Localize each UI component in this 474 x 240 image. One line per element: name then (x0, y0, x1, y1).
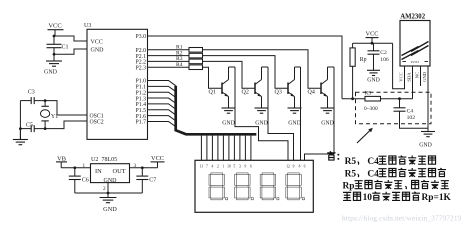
resistor R1 (176, 45, 203, 53)
pin OSC2 label (U3 left) (90, 119, 104, 125)
wire R3 to Q2 base (203, 61, 256, 88)
wire P1.3 to bus (148, 98, 176, 103)
wire P2.1 to resistor R2 (148, 55, 190, 57)
capacitor C5 (26, 123, 34, 133)
wire VCC rail to sensor pin 1 (393, 43, 405, 88)
display digit 1 (7-segment) (209, 173, 228, 200)
node C junction (crystal top) (44, 99, 47, 102)
wire SDA net (342, 98, 413, 100)
svg-text:Q2: Q2 (242, 90, 249, 96)
svg-text:R5: R5 (345, 157, 357, 167)
svg-text:106: 106 (380, 57, 389, 63)
svg-text:5: 5 (234, 165, 236, 169)
svg-text:AM2302: AM2302 (400, 14, 426, 21)
node B junction (C1/GND) (53, 53, 56, 56)
ground (U2) (100, 198, 118, 213)
resistor R3 (176, 56, 203, 63)
wire P3.0 to sensor SDA (148, 36, 343, 99)
wire bus to display pin 6 (228, 136, 230, 161)
capacitor C6 (69, 168, 89, 184)
svg-text:6: 6 (250, 165, 252, 169)
svg-text:1: 1 (83, 163, 86, 169)
power flag VCC (U2 output) (151, 155, 165, 168)
svg-text:R5: R5 (365, 91, 372, 97)
pin 3 label (U2) (134, 163, 137, 169)
wire bus to display pin 9 (244, 136, 246, 161)
pin 1 label (U2) (83, 163, 86, 169)
mcu U3 box (84, 23, 148, 139)
note marker 注： (327, 151, 339, 160)
svg-text:Y1: Y1 (51, 114, 58, 120)
display digit pin numbers (286, 165, 305, 169)
dashed box (R5/C4 optional) (356, 92, 432, 124)
wire C7 to ground rail (141, 180, 143, 194)
display digit 3 (7-segment) (260, 173, 279, 200)
pin VCC (sensor) label (399, 72, 404, 81)
wire bus to display pin 10 (250, 136, 252, 161)
wire U2 OUT to VCC (130, 167, 158, 169)
node J junction (Rp/SDA) (351, 97, 354, 100)
pin P1.0 label (136, 79, 147, 85)
svg-text:GND: GND (422, 71, 427, 82)
display DS1 box (195, 160, 313, 212)
sensor AM2302 bottom marks (403, 60, 429, 64)
pin P2.2 label (136, 60, 147, 66)
wire P1.7 to bus (148, 121, 176, 126)
svg-text:C4: C4 (367, 157, 379, 167)
svg-text:10: 10 (363, 193, 373, 203)
ground (crystal) (13, 129, 28, 145)
wire P1.6 to bus (148, 116, 176, 121)
pin P1.7 label (136, 120, 147, 126)
wire VB to U2 IN (61, 167, 90, 169)
wire Q1 collector to display pin 12 (235, 67, 288, 160)
svg-text:C3: C3 (28, 89, 35, 95)
wire P1.0 to bus (148, 81, 176, 86)
wire P1.4 to bus (148, 104, 176, 109)
pin P1.4 label (136, 102, 147, 108)
svg-text:1: 1 (223, 165, 225, 169)
svg-text:SDA: SDA (407, 72, 412, 82)
wire P1.1 to bus (148, 86, 176, 91)
node H junction (rail/GND) (107, 192, 110, 195)
svg-text:VCC: VCC (399, 72, 404, 81)
svg-text:GND: GND (222, 121, 235, 127)
label IN (U2) (95, 168, 102, 175)
pin P2.3 label (136, 65, 147, 71)
wire C1 node to U3 GND pin (54, 49, 87, 54)
pin VCC label (U3 left) (91, 39, 103, 45)
svg-text:8: 8 (299, 165, 301, 169)
wire P1.5 to bus (148, 110, 176, 115)
wire bus to display pin 3 (211, 136, 213, 161)
capacitor C7 (136, 168, 156, 184)
wire bus to display pin 1 (200, 136, 202, 161)
svg-text:C6: C6 (82, 178, 89, 184)
svg-text:P1.7: P1.7 (136, 120, 147, 126)
note line 4 (引线10米以上建议Rp=1K) (343, 192, 451, 203)
svg-text:2: 2 (217, 165, 219, 169)
svg-text:Rp: Rp (343, 181, 355, 191)
bus P1 (thick) (176, 86, 257, 135)
node F junction (C6 tap) (73, 166, 76, 169)
svg-text:VCC: VCC (91, 39, 103, 45)
svg-text:C5: C5 (26, 123, 33, 129)
svg-text:IN: IN (95, 168, 102, 175)
regulator U2 78L05 box (91, 157, 130, 182)
pin NC (sensor) (415, 66, 421, 86)
pin P1.1 label (136, 85, 147, 91)
wire left rail (crystal) (19, 101, 21, 139)
wire Q3 collector jog (295, 66, 301, 68)
node I junction (VCC stem) (371, 42, 374, 45)
pin P3.0 label (136, 34, 147, 40)
sensor AM2302 zigzag art (402, 42, 429, 60)
wire C6 to ground rail (74, 180, 76, 194)
wire top rail to OSC1 (20, 101, 87, 115)
svg-text:Rp: Rp (360, 57, 367, 63)
pin P1.2 label (136, 90, 147, 96)
capacitor C4 (394, 99, 416, 122)
svg-text:102: 102 (407, 115, 416, 121)
crystal Y1 (41, 101, 59, 129)
pin P1.5 label (136, 108, 147, 114)
transistor Q1 (209, 67, 229, 108)
pin GND (sensor) (422, 66, 428, 128)
wire bus to display pin 2 (206, 136, 208, 161)
transistor Q4 (308, 67, 328, 108)
wire P2.0 to resistor R1 (148, 49, 190, 51)
wire R4 to Q1 base (203, 67, 223, 88)
svg-text:GND: GND (44, 70, 58, 76)
net label VB (56, 156, 67, 168)
svg-text:P2 P3: P2 P3 (411, 60, 419, 64)
wire bus to display pin 8 (239, 136, 241, 161)
svg-text:9: 9 (245, 165, 247, 169)
arrow to dashed box (357, 128, 373, 143)
node G junction (C7 tap) (141, 166, 144, 169)
svg-text:4: 4 (212, 165, 214, 169)
ground (Q1 emitter) (222, 108, 236, 127)
label OUT (U2) (113, 168, 126, 175)
svg-text:GND: GND (91, 47, 105, 53)
wire Q2 collector jog (262, 66, 269, 68)
resistor R2 (176, 50, 203, 57)
svg-text:https://blog.csdn.net/weixin_3: https://blog.csdn.net/weixin_37797219 (342, 214, 462, 223)
svg-text:OSC2: OSC2 (90, 119, 104, 125)
pin SDA (sensor) (407, 66, 413, 99)
sensor AM2302 box (400, 14, 430, 66)
wire P1.2 to bus (148, 92, 176, 97)
wire ground rail (U2) (75, 192, 143, 194)
wire bus to display pin 4 (217, 136, 219, 161)
power flag VCC (sensor) (366, 30, 379, 43)
svg-text:C1: C1 (62, 44, 69, 50)
svg-text:GND: GND (419, 143, 432, 149)
pin P1.3 label (136, 96, 147, 102)
ground (Q2 emitter) (255, 108, 269, 127)
wire C4 to sensor GND (400, 111, 429, 128)
wire P2.3 to resistor R4 (148, 66, 190, 68)
svg-text:9: 9 (293, 165, 295, 169)
svg-text:OUT: OUT (113, 168, 126, 175)
ground (Q4 emitter) (321, 108, 335, 127)
note line 3 (Rp为上拉电阻建议加上) (343, 180, 449, 191)
power flag VCC (top-left) (48, 23, 64, 37)
svg-text:GND: GND (321, 121, 334, 127)
node D junction (crystal bottom) (44, 127, 47, 130)
pin GND label (U3 left) (91, 47, 105, 53)
svg-text:P3.0: P3.0 (136, 34, 147, 40)
wire VCC node to U3 VCC pin (54, 36, 87, 41)
capacitor C3 (28, 89, 35, 104)
svg-text:2: 2 (103, 186, 106, 192)
pin P2.0 label (136, 48, 147, 54)
svg-text:11: 11 (200, 165, 204, 169)
svg-text:7: 7 (206, 165, 208, 169)
svg-text:VCC: VCC (151, 155, 164, 162)
svg-text:78L05: 78L05 (102, 157, 118, 163)
svg-text:GND: GND (103, 206, 117, 213)
capacitor C1 (47, 36, 69, 50)
svg-text:NC: NC (415, 72, 420, 78)
display digit 2 (7-segment) (235, 173, 254, 200)
wire bus to display pin 7 (233, 136, 235, 161)
node K junction (C4 tap) (398, 97, 401, 100)
watermark (342, 214, 462, 223)
svg-text:P2.3: P2.3 (136, 65, 147, 71)
svg-text:C7: C7 (149, 178, 156, 184)
svg-text:Q4: Q4 (308, 90, 315, 96)
note line 2 (R5、C4一般电路可不加) (345, 168, 446, 179)
svg-text:GND: GND (367, 77, 380, 83)
ground (below C1) (44, 48, 62, 76)
wire Q4 collector jog (328, 66, 335, 68)
svg-text:C4: C4 (407, 109, 414, 115)
pin P1.6 label (136, 114, 147, 120)
note line 1 (R5、C4为增强抗干扰) (345, 156, 436, 167)
svg-text:GND: GND (104, 178, 118, 184)
wire R1 to Q4 base (203, 50, 322, 89)
svg-text:6: 6 (304, 165, 306, 169)
svg-text:U3: U3 (84, 23, 91, 29)
wire Q1 collector jog (229, 66, 236, 68)
svg-text:Q1: Q1 (209, 90, 216, 96)
wire U2 GND pin to rail (107, 183, 109, 198)
transistor Q2 (242, 67, 262, 108)
svg-text:Rp=1K: Rp=1K (422, 193, 452, 203)
svg-text:C4: C4 (367, 169, 379, 179)
pin P2.1 label (136, 54, 147, 60)
svg-text:0~300: 0~300 (364, 106, 378, 112)
wire Q2 collector to display pin 9 (268, 67, 294, 160)
svg-text:3: 3 (239, 165, 241, 169)
svg-text:R4: R4 (176, 62, 183, 68)
svg-text:10: 10 (227, 165, 231, 169)
resistor Rp (350, 43, 367, 66)
wire bottom rail to OSC2 (20, 121, 87, 129)
wire R2 to Q3 base (203, 56, 289, 89)
display segment pin numbers (200, 165, 252, 169)
node A junction (VCC/C1) (53, 35, 56, 38)
svg-text:R5: R5 (345, 169, 357, 179)
ground (C2) (367, 54, 380, 83)
resistor R4 (176, 62, 203, 70)
svg-text:12: 12 (286, 165, 290, 169)
ground (sensor) (419, 128, 435, 148)
wire Rp to SDA net (352, 66, 354, 98)
node E junction (left rail) (19, 127, 22, 130)
resistor R5 (364, 91, 381, 112)
wire bus to display pin 5 (222, 136, 224, 161)
transistor Q3 (275, 67, 295, 108)
pin 2 label (U2) (103, 186, 106, 192)
svg-text:Q3: Q3 (275, 90, 282, 96)
svg-text:GND: GND (255, 121, 268, 127)
wire Q3 collector to display pin 8 (300, 67, 302, 160)
display digit 4 (7-segment) (286, 173, 305, 200)
svg-text:GND: GND (288, 121, 301, 127)
svg-text:VCC: VCC (366, 30, 379, 37)
pin OSC1 label (U3 left) (90, 113, 104, 119)
wire VCC rail (sensor) (353, 42, 393, 44)
capacitor C2 (368, 43, 389, 63)
svg-text:VCC: VCC (48, 23, 61, 30)
ground (Q3 emitter) (288, 108, 302, 127)
svg-text:C2: C2 (380, 50, 387, 56)
svg-text:U2: U2 (91, 157, 98, 163)
wire Q4 collector to display pin 6 (305, 67, 335, 160)
wire P2.2 to resistor R3 (148, 60, 190, 62)
label GND (U2) (104, 178, 118, 184)
